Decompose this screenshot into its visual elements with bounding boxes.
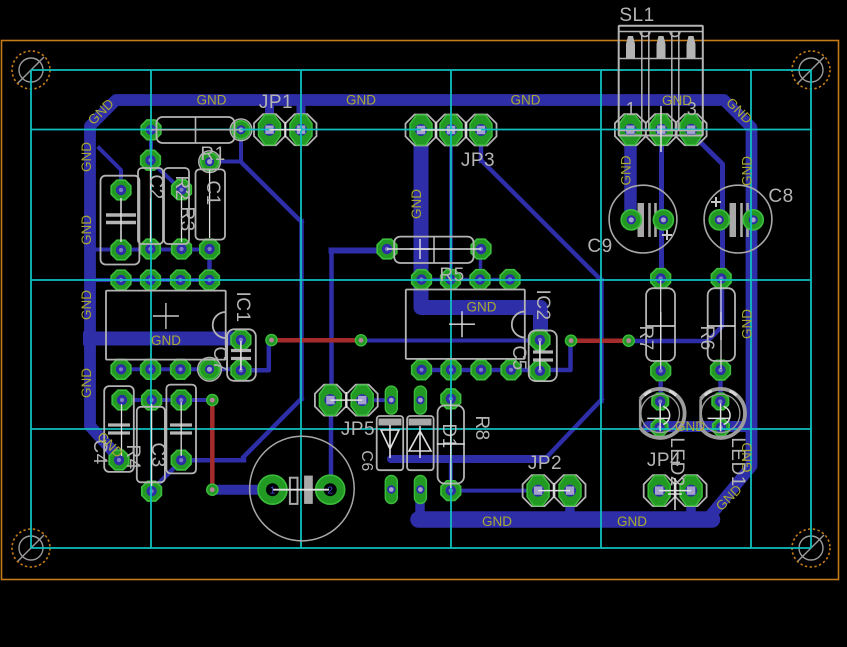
silk LED1 ring	[701, 389, 745, 438]
silk SP1 plate2	[304, 476, 313, 504]
silk C2 body	[138, 168, 163, 244]
wire R8 bottom to JP2.1	[452, 489, 538, 493]
silk C9 circle	[609, 185, 677, 253]
silk SL1 pin2	[657, 36, 666, 58]
pad R5.1	[377, 239, 397, 259]
silk C8 plate2	[742, 203, 748, 237]
silk SL1 divider1	[641, 32, 643, 131]
pad R2.1	[172, 180, 192, 200]
silk JP4 cross	[668, 478, 682, 510]
svg-text:GND: GND	[79, 368, 94, 398]
wire JP5.2 to optoA	[363, 398, 391, 402]
silk R7 body	[646, 288, 675, 361]
wire R1 left to C2 top	[149, 131, 153, 160]
silk JP1 link	[270, 129, 302, 131]
svg-text:SL1: SL1	[619, 5, 654, 26]
svg-text:GND: GND	[79, 215, 94, 245]
wire IC2 top row	[422, 278, 511, 282]
silk R5 divider	[433, 237, 435, 263]
grid hline y548	[31, 547, 811, 549]
silk IC2 origin	[449, 311, 475, 337]
silk optoB body	[407, 416, 434, 470]
silk R1 divider	[195, 117, 197, 143]
wire C1 top link	[210, 160, 241, 164]
silk IC2 body	[406, 290, 525, 359]
svg-text:GND: GND	[675, 419, 705, 434]
pad SP1.2	[316, 475, 345, 504]
wire LED cathode band	[648, 421, 752, 432]
svg-text:GND: GND	[79, 290, 94, 320]
pad JP5.2	[347, 385, 378, 416]
wire R8 band stub	[449, 461, 453, 486]
svg-text:D1: D1	[438, 423, 459, 448]
silk SL1 divider4	[678, 32, 680, 131]
silk SL1 hline1	[619, 31, 703, 33]
silk C4 body	[104, 386, 134, 472]
pad LED2.A	[652, 393, 668, 409]
silk SL1 pin3	[687, 36, 696, 58]
silk optoB bar	[409, 419, 432, 426]
pad IC2.1	[412, 270, 432, 290]
svg-text:R1: R1	[200, 144, 225, 165]
wire IC1 GND band	[90, 332, 236, 346]
wire JP3.3 stub	[479, 131, 484, 161]
pad JP5.1	[315, 385, 346, 416]
silk R1 lead	[151, 129, 241, 131]
pad JP4.1	[644, 475, 675, 506]
silk SL1 divider3	[671, 32, 673, 131]
wire R7 bottom to LED2	[658, 372, 663, 400]
pad R2.2	[172, 239, 192, 259]
silk R8 origin	[437, 430, 465, 458]
wire JP1 pad2 stub	[297, 103, 306, 127]
wire diag R1 to x301	[241, 162, 302, 223]
pad R8.2	[441, 481, 461, 501]
svg-text:C9: C9	[587, 236, 612, 257]
pad optoB.1	[414, 386, 426, 414]
wire x331 vertical	[329, 252, 334, 399]
svg-text:GND: GND	[79, 142, 94, 172]
silk C4 lead	[121, 404, 123, 456]
svg-text:1: 1	[626, 99, 637, 119]
silk JP3 tick1	[435, 122, 437, 138]
wire x301 vertical	[299, 221, 304, 399]
wire C1 bottom stub	[207, 250, 212, 280]
svg-text:GND: GND	[617, 514, 647, 529]
pad IC2.3	[470, 270, 490, 290]
silk CE1 lead	[120, 198, 122, 242]
pad IC2.4	[500, 270, 520, 290]
svg-text:GND: GND	[197, 93, 227, 108]
silk JP2 link	[538, 490, 570, 492]
silk SL1 body	[619, 26, 703, 136]
pad IC2.2	[441, 270, 461, 290]
silk LED2 ring	[640, 389, 684, 438]
silk R8 body	[438, 405, 464, 483]
silk SL1 origin	[660, 106, 662, 152]
silk SL1 hline3	[619, 130, 703, 132]
grid vline x601	[600, 70, 602, 548]
silk C7 body	[227, 329, 256, 381]
wire R5 right to IC2	[479, 250, 483, 279]
grid vline x811	[810, 70, 812, 548]
svg-text:IC2: IC2	[532, 289, 553, 320]
svg-text:R2: R2	[171, 175, 192, 200]
pad C7.2	[231, 361, 251, 381]
pad IC1.2	[141, 270, 161, 290]
silk C3b body	[166, 385, 196, 474]
wire y460 horizontal	[182, 458, 244, 463]
wire red C7 to via	[274, 338, 360, 343]
silk C3 body	[137, 407, 165, 483]
wire diag to JP3.3	[481, 160, 602, 281]
pad C3.2	[142, 481, 162, 501]
svg-text:R8: R8	[471, 415, 492, 440]
wire red via571 to via629	[573, 338, 627, 343]
silk C3b plates	[170, 425, 192, 433]
pad optoB.2	[414, 476, 426, 504]
silk R7 origin	[647, 312, 675, 340]
silk C8 plate1	[730, 203, 737, 237]
svg-text:GND: GND	[346, 93, 376, 108]
wire signal band y459	[391, 455, 544, 463]
grid vline x751	[750, 70, 752, 548]
mounting hole 3	[18, 535, 44, 561]
svg-text:JP2: JP2	[528, 453, 562, 474]
mounting hole 1	[18, 57, 44, 83]
pad SL1.3	[676, 114, 707, 145]
wire R1 right stub	[239, 134, 243, 162]
wire C7 bottom to via	[242, 342, 269, 370]
wire diag to C3 bottom	[153, 461, 182, 490]
svg-text:2: 2	[327, 486, 333, 497]
pad JP2.1	[523, 475, 554, 506]
pad R6.2	[711, 360, 731, 380]
wire R6 top to via net	[630, 280, 722, 341]
silk SL1 divider2	[648, 32, 650, 131]
wire JP4.2 stub	[686, 493, 696, 514]
grid vline x151	[150, 70, 152, 548]
grid vline x451	[450, 70, 452, 548]
silk JP3 tick2	[465, 122, 467, 138]
via V6	[207, 484, 218, 495]
svg-text:IC1: IC1	[232, 291, 253, 322]
svg-text:C2: C2	[145, 174, 166, 199]
svg-text:C8: C8	[768, 186, 793, 207]
wire SL1.2 to C9 right to R7 top	[659, 140, 664, 278]
silk R2 body	[164, 168, 189, 244]
wire cluster2 top row	[122, 398, 212, 402]
silk R2 lead	[181, 196, 183, 242]
wire IC1 bottom row	[121, 367, 241, 371]
silk JP5 tick	[345, 392, 347, 408]
pad R5.2	[471, 239, 491, 259]
svg-text:C5: C5	[508, 345, 529, 370]
wire x601 vertical	[599, 280, 604, 401]
pad JP3.2	[436, 115, 467, 146]
pad C2.1	[141, 150, 161, 170]
pad SL1.2	[646, 114, 677, 145]
pad LED2.K	[651, 419, 667, 435]
wire capL top link	[99, 148, 121, 190]
wire R6 bottom to LED1	[718, 372, 723, 400]
pad C8.2	[743, 210, 763, 230]
pad C3a.1	[142, 390, 162, 410]
pad IC1.5	[198, 358, 222, 382]
pad CE1.1	[111, 180, 131, 200]
silk R6 lead	[720, 280, 722, 369]
pad C9.1	[621, 210, 641, 230]
pad IC1.8	[111, 360, 131, 380]
svg-text:GND: GND	[619, 155, 634, 185]
pad JP1.2	[286, 114, 317, 145]
pad C4.1	[112, 390, 132, 410]
silk C4 plates	[108, 425, 130, 433]
silk C5 plates	[533, 352, 553, 360]
wire JP5.1 to buzzer pad2	[329, 402, 334, 477]
mounting hole 4	[798, 535, 824, 561]
silk CE1 body	[101, 176, 140, 265]
pad IC1.3	[171, 270, 191, 290]
silk IC1 body	[106, 291, 226, 360]
pad R6.1	[711, 269, 731, 289]
silk IC1 notch	[213, 312, 226, 338]
svg-text:GND: GND	[740, 156, 755, 186]
wire diag x301 to y460	[244, 399, 302, 458]
svg-text:C1: C1	[202, 180, 223, 205]
pad R1.2	[230, 119, 252, 141]
pad C3b.1	[171, 390, 191, 410]
grid vline x301	[300, 70, 302, 548]
svg-text:JP4: JP4	[647, 450, 681, 471]
pad C5.2	[530, 361, 550, 381]
svg-text:GND: GND	[409, 189, 424, 219]
svg-text:GND: GND	[740, 309, 755, 339]
silk R7 lead	[660, 280, 662, 369]
wire diag C2top to R2	[151, 161, 182, 190]
wire via to buzzer pad1	[214, 485, 271, 495]
wire IC1 top row	[86, 278, 210, 282]
wire thin y340	[363, 339, 538, 343]
silk R6 origin	[707, 312, 735, 340]
grid vline x31	[30, 70, 32, 548]
wire JP3 pad1 GND thick	[421, 131, 541, 340]
silk optoA body	[377, 416, 404, 470]
pad IC1.7	[141, 360, 161, 380]
pad SL1.1	[615, 114, 646, 145]
silk JP5 link	[330, 399, 362, 401]
silk SL1 hline2	[619, 58, 703, 60]
pad C1.2	[200, 239, 220, 259]
pad JP3.3	[466, 115, 497, 146]
pad optoA.1	[385, 386, 397, 414]
silk IC2 notch	[512, 312, 525, 338]
svg-text:JP1: JP1	[259, 92, 293, 113]
via V3	[565, 335, 576, 346]
silk JP3 link	[421, 129, 481, 131]
wire GND main ring	[90, 100, 752, 518]
wire diag to x601	[544, 400, 602, 461]
pad JP1.1	[254, 114, 285, 145]
svg-text:R7: R7	[635, 325, 656, 350]
via V4	[623, 335, 634, 346]
pad C8.1	[709, 210, 729, 230]
silk C9 plate1	[638, 203, 645, 237]
mounting hole ring 3	[12, 529, 50, 567]
silk R1 body	[157, 117, 235, 143]
silk SP1 plate1	[290, 478, 298, 504]
silk C7 plates	[231, 351, 251, 359]
silk JP2 tick	[553, 483, 555, 498]
silk SP1 circle	[250, 436, 355, 541]
svg-text:R3: R3	[176, 206, 197, 231]
svg-text:R5: R5	[439, 265, 464, 286]
pad C4.2	[109, 450, 129, 470]
via V2	[355, 335, 366, 346]
silk JP4 tick	[674, 483, 676, 498]
grid hline y129.5	[31, 129, 811, 131]
pad C3b.2	[171, 450, 191, 470]
silk CE1 plates	[106, 215, 136, 223]
svg-text:1: 1	[270, 486, 276, 497]
pad IC1.6	[171, 360, 191, 380]
svg-text:GND: GND	[511, 93, 541, 108]
pad JP3.1	[406, 115, 437, 146]
silk R8 lead	[450, 400, 452, 488]
wire optoB bottom stub	[415, 492, 425, 515]
svg-text:GND: GND	[151, 333, 181, 348]
svg-text:GND: GND	[662, 93, 692, 108]
wire GND bottom band	[419, 511, 713, 528]
mounting hole ring 1	[12, 51, 50, 89]
svg-text:R6: R6	[696, 325, 717, 350]
silk C9 plate2	[650, 203, 656, 237]
pad IC2.5	[501, 360, 521, 380]
silk JP4 link	[659, 490, 691, 492]
grid hline y280	[31, 279, 811, 281]
silk C1 lead	[209, 170, 211, 238]
wire red vertical x212	[210, 402, 215, 488]
mounting hole ring 4	[792, 529, 830, 567]
svg-text:GND: GND	[467, 300, 497, 315]
pad C5.1	[530, 330, 550, 350]
silk C2 lead	[150, 168, 152, 242]
wire SL1.3 to C8 left to R6 top	[693, 135, 723, 278]
silk R5 origin	[410, 239, 430, 259]
wire JP3.2 to IC2 pad2	[449, 131, 453, 279]
svg-text:JP5: JP5	[341, 419, 375, 440]
pad R8.1	[441, 389, 461, 409]
mounting hole 2	[798, 57, 824, 83]
pad IC1.4	[200, 270, 220, 290]
silk C5 body	[529, 331, 557, 382]
silk R5 lead	[387, 248, 481, 250]
pad IC2.7	[441, 360, 461, 380]
pad IC2.6	[471, 360, 491, 380]
svg-text:C7: C7	[209, 346, 230, 371]
grid hline y429	[31, 428, 811, 430]
pad LED1.K	[713, 419, 729, 435]
silk IC1 origin	[153, 303, 179, 329]
wire R5 left feed	[332, 248, 387, 254]
wire IC2 bottom row to via571	[422, 342, 571, 370]
silk C8 circle	[704, 185, 772, 253]
silk R6 body	[708, 288, 735, 361]
pad R7.1	[651, 269, 671, 289]
svg-text:JP3: JP3	[461, 150, 495, 171]
silk C7 lead	[240, 341, 242, 370]
silk JP1 tick	[284, 122, 286, 138]
silk optoA bar	[379, 419, 402, 426]
svg-text:C3: C3	[147, 442, 168, 467]
pad JP2.2	[555, 475, 586, 506]
silk C1 body	[196, 169, 226, 239]
pad CE1.2	[111, 240, 131, 260]
svg-text:GND: GND	[482, 514, 512, 529]
via V1	[266, 335, 277, 346]
pad JP4.2	[676, 475, 707, 506]
grid hline y70	[31, 69, 811, 71]
svg-text:C6: C6	[358, 450, 375, 471]
silk SL1 arcs	[640, 32, 680, 37]
silk optoB diode	[409, 426, 431, 458]
silk C9 plus	[662, 230, 672, 240]
wire SL1.1 to C9 left	[624, 140, 637, 221]
silk C8 plus	[711, 197, 721, 207]
pad C1.1	[199, 151, 221, 173]
silk C5 lead	[539, 341, 541, 370]
wire JP1 pad1 stub	[265, 103, 274, 127]
silk C3b lead	[180, 402, 182, 456]
pad C7.1	[231, 330, 251, 350]
pad R1.1	[141, 120, 161, 140]
mounting hole ring 2	[792, 51, 830, 89]
pad optoA.2	[385, 476, 397, 504]
silk SP1 lead	[273, 489, 329, 491]
silk SL1 pin1	[626, 36, 635, 58]
pad SP1.1	[258, 475, 287, 504]
pad IC2.8	[412, 360, 432, 380]
silk optoA diode	[381, 425, 399, 458]
silk R5 body	[394, 237, 473, 263]
pad C9.2	[653, 210, 673, 230]
pad IC1.1	[111, 270, 131, 290]
pad C2.2	[141, 239, 161, 259]
via V5	[207, 395, 218, 406]
wire JP2.2 stub	[565, 493, 575, 514]
silk C3 lead	[151, 404, 153, 486]
pad R7.2	[651, 361, 671, 381]
wire GND row y249	[95, 248, 210, 252]
svg-text:GND: GND	[740, 442, 755, 472]
pad LED1.A	[712, 393, 728, 409]
